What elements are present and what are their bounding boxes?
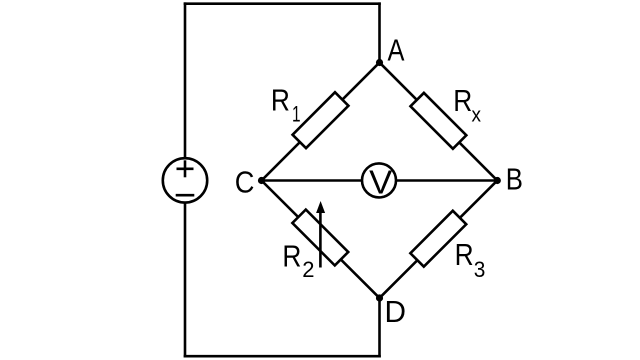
wire: top horizontal from source branch to node A branch: [185, 2, 380, 5]
svg-text:V: V: [369, 164, 393, 201]
resistor R2 (C-D arm, variable): [292, 210, 348, 266]
svg-text:2: 2: [302, 257, 314, 282]
wire: bridge arm C to D: [262, 181, 380, 299]
voltmeter V: [362, 163, 396, 197]
svg-text:x: x: [472, 104, 482, 127]
svg-text:R: R: [271, 84, 290, 118]
battery plus sign: [177, 160, 194, 177]
svg-text:1: 1: [292, 103, 301, 127]
battery minus sign: [176, 194, 195, 197]
wire: bridge arm D to B: [380, 181, 498, 299]
wire: bridge arm C to A: [262, 63, 380, 181]
wire: left vertical above source: [184, 4, 187, 159]
battery source circle: [163, 158, 207, 202]
wire: vertical drop from top wire to node A: [378, 4, 381, 63]
wire: vertical rise from bottom wire to node D: [378, 298, 381, 356]
svg-text:R: R: [455, 238, 474, 272]
wire: left vertical below source: [184, 203, 187, 357]
arrow through R2 (variable-resistor arrow): [316, 201, 325, 268]
svg-text:R: R: [282, 239, 301, 273]
svg-text:C: C: [235, 166, 255, 200]
resistor R1 (C-A arm): [293, 92, 349, 148]
svg-text:A: A: [388, 33, 405, 68]
resistor Rx (A-B arm): [410, 93, 466, 149]
node A junction dot: [376, 59, 383, 66]
node B junction dot: [494, 177, 501, 184]
wire: bridge arm A to B: [380, 63, 498, 181]
svg-text:3: 3: [474, 258, 486, 283]
node D junction dot: [376, 294, 383, 301]
svg-text:R: R: [453, 84, 472, 118]
svg-text:D: D: [385, 294, 406, 329]
resistor R3 (D-B arm): [410, 211, 466, 267]
wire: galvanometer branch C to B: [262, 179, 498, 182]
svg-text:B: B: [506, 162, 523, 197]
wire: bottom horizontal: [185, 355, 380, 358]
node C junction dot: [258, 177, 265, 184]
